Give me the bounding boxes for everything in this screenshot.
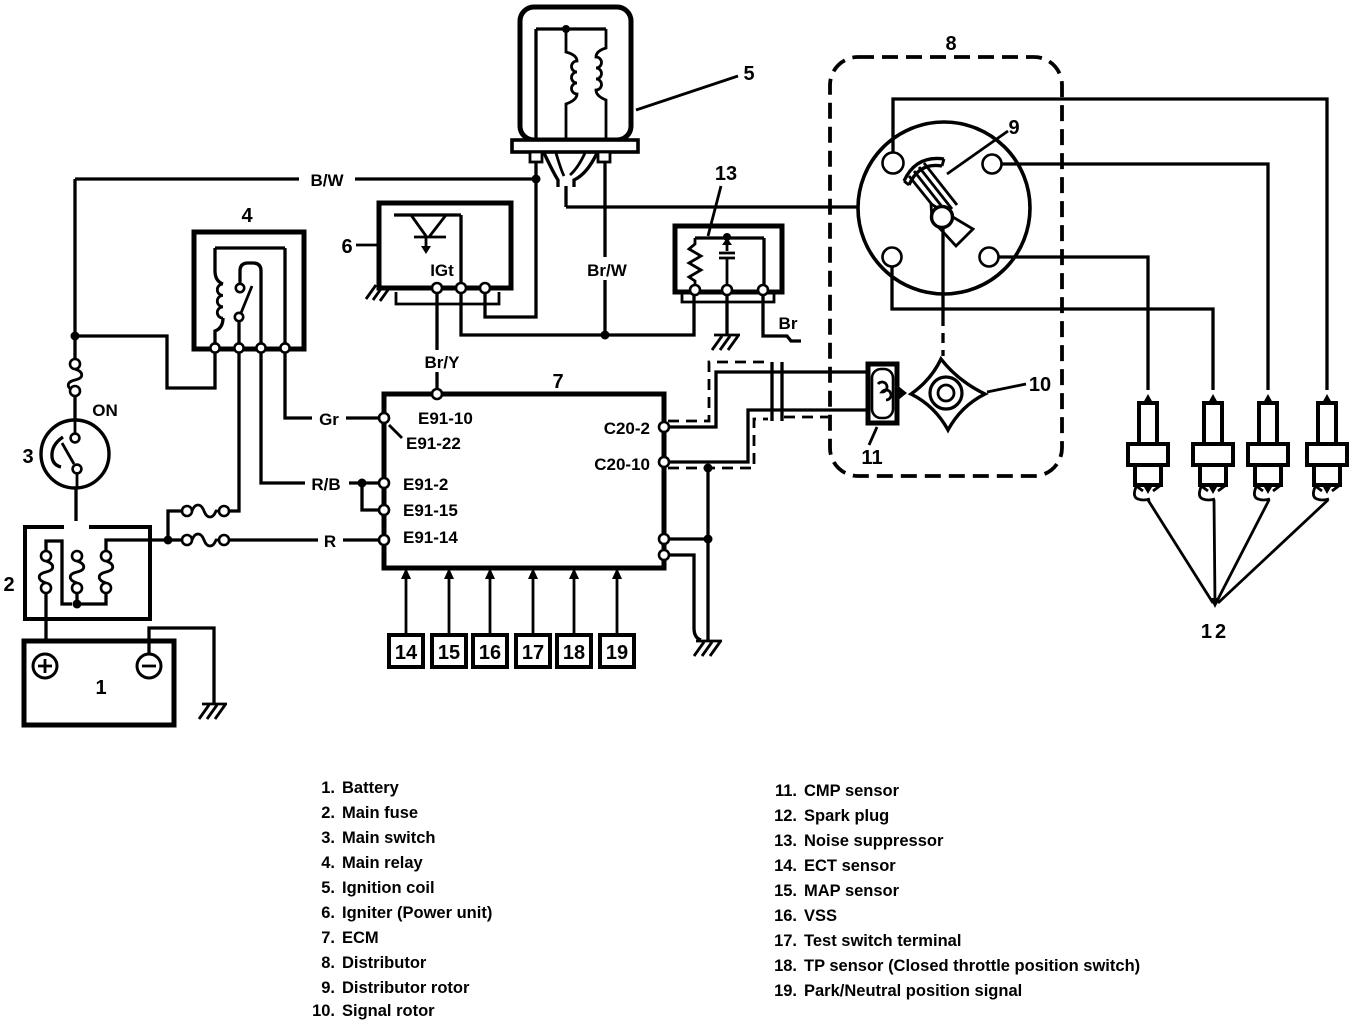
svg-text:Spark plug: Spark plug xyxy=(804,807,889,825)
wire rotor UR to spark plug 3 xyxy=(1001,164,1268,390)
svg-text:11: 11 xyxy=(861,447,882,469)
svg-text:6.: 6. xyxy=(321,904,335,922)
svg-text:16: 16 xyxy=(479,642,501,664)
label 10 xyxy=(987,374,1051,396)
pin label C20-10 xyxy=(594,455,650,474)
ECM bottom arrow 15 xyxy=(444,568,454,635)
svg-text:5.: 5. xyxy=(321,879,335,897)
pin label C20-2 xyxy=(604,419,650,438)
svg-text:17: 17 xyxy=(522,642,544,664)
svg-text:8: 8 xyxy=(945,33,956,55)
leader spark plug 4 xyxy=(1218,500,1328,603)
label R/B xyxy=(305,472,349,494)
svg-text:Main fuse: Main fuse xyxy=(342,804,418,822)
ground igniter xyxy=(366,285,390,301)
label 9 xyxy=(947,117,1020,174)
node Br/W junction xyxy=(601,331,610,340)
label 5 xyxy=(636,63,755,110)
svg-text:Main relay: Main relay xyxy=(342,854,424,872)
svg-text:13: 13 xyxy=(715,163,737,185)
svg-text:14: 14 xyxy=(395,642,418,664)
label Br/Y xyxy=(418,350,466,372)
ECM bottom arrow 19 xyxy=(612,568,622,635)
svg-text:1.: 1. xyxy=(321,779,335,797)
harness sheath dashed after connector xyxy=(784,416,828,419)
svg-text:1: 1 xyxy=(95,677,106,699)
wire coil left terminal down to igniter T3 xyxy=(485,162,536,317)
harness connector xyxy=(772,362,782,421)
svg-text:Br: Br xyxy=(779,314,798,333)
ECM bottom arrow 18 xyxy=(569,568,579,635)
coil terminal right xyxy=(598,152,610,162)
wire battery minus to ground xyxy=(149,628,214,703)
CMP sensor 11 xyxy=(868,364,907,423)
label B/W xyxy=(299,167,355,190)
harness sheath dashed lower xyxy=(668,419,768,468)
node fuse bottom bus xyxy=(73,600,82,609)
wire linkB bottom to bus xyxy=(75,593,78,604)
coil terminal left xyxy=(530,152,542,162)
node shield ground tap xyxy=(704,464,713,473)
wire R to ECM xyxy=(229,538,380,541)
label 8 xyxy=(945,33,956,55)
svg-text:8.: 8. xyxy=(321,954,335,972)
node junction switch/relay feed xyxy=(71,332,80,341)
wire relay pin1 feed xyxy=(75,336,215,388)
wire rotor shaft dashed xyxy=(941,295,944,356)
label Br/W xyxy=(580,257,635,280)
pin label E91-14 xyxy=(403,528,458,547)
svg-text:E91-10: E91-10 xyxy=(418,409,473,428)
svg-text:Park/Neutral position signal: Park/Neutral position signal xyxy=(804,982,1022,1000)
svg-text:TP sensor (Closed throttle pos: TP sensor (Closed throttle position swit… xyxy=(804,957,1140,975)
wire igniter T2 to suppressor xyxy=(461,293,694,335)
wire shield ground xyxy=(706,468,709,539)
ignition coil 5 xyxy=(520,7,631,140)
distributor rotor 9 xyxy=(858,122,1030,295)
svg-text:E91-14: E91-14 xyxy=(403,528,458,547)
svg-text:19: 19 xyxy=(606,642,628,664)
VSS box 16 xyxy=(473,635,507,667)
wire B/W main horizontal xyxy=(75,177,536,180)
svg-text:Battery: Battery xyxy=(342,779,400,797)
wire fuse internal linkA-top to bottom bus xyxy=(46,541,72,604)
wire high tension coil to rotor xyxy=(566,205,932,208)
ECM bottom arrow 16 xyxy=(485,568,495,635)
label 12 xyxy=(1201,598,1229,643)
ground suppressor xyxy=(712,295,740,350)
wire rotor LL to spark plug 2 xyxy=(892,266,1213,390)
igniter 6 xyxy=(379,203,511,304)
wire ECM pin to ground bus xyxy=(669,537,708,540)
label 6 xyxy=(341,236,377,258)
wire rotor UL to spark plug 4 xyxy=(893,99,1327,390)
node B/W coil junction xyxy=(532,175,541,184)
svg-text:13.: 13. xyxy=(774,832,797,850)
svg-text:Br/W: Br/W xyxy=(587,261,628,280)
svg-text:2.: 2. xyxy=(321,804,335,822)
wire Br/W coil right terminal down xyxy=(603,162,606,335)
label 1 xyxy=(95,677,106,699)
svg-text:11.: 11. xyxy=(775,782,797,800)
svg-text:4: 4 xyxy=(241,205,253,227)
wire R/B relay pin3 to ECM xyxy=(261,352,380,483)
label ON xyxy=(92,401,118,420)
pin label E91-15 xyxy=(403,501,458,520)
svg-text:6: 6 xyxy=(341,236,352,258)
test switch box 17 xyxy=(516,635,550,667)
wire Br/Y igniter T1 to ECM xyxy=(435,293,438,390)
svg-text:R: R xyxy=(324,532,336,551)
svg-text:3.: 3. xyxy=(321,829,335,847)
wire linkC top out to junction xyxy=(106,540,168,551)
ECT sensor box 14 xyxy=(389,635,423,667)
svg-text:Gr: Gr xyxy=(319,410,339,429)
wire junction up to relay fuse xyxy=(168,511,182,540)
wire switch to main fuse xyxy=(74,488,77,551)
svg-text:15: 15 xyxy=(438,642,460,664)
wire ground bus down xyxy=(706,539,709,640)
distributor 8 dashed box xyxy=(830,57,1062,476)
label Gr xyxy=(312,407,346,429)
svg-text:ECM: ECM xyxy=(342,929,379,947)
svg-text:3: 3 xyxy=(22,446,33,468)
svg-text:10: 10 xyxy=(1029,374,1051,396)
wire Gr relay pin4 to ECM xyxy=(285,352,380,418)
svg-text:9: 9 xyxy=(1008,117,1019,139)
signal rotor 10 xyxy=(911,359,985,430)
fusible link B xyxy=(70,551,84,593)
svg-text:18: 18 xyxy=(563,642,585,664)
label 3 xyxy=(22,446,33,468)
svg-text:17.: 17. xyxy=(774,932,797,950)
svg-text:7.: 7. xyxy=(321,929,335,947)
leader spark plug 2 xyxy=(1214,500,1215,603)
leader spark plug 3 xyxy=(1216,500,1269,603)
ground battery xyxy=(199,704,227,719)
wire ECM pin2 to ground xyxy=(669,555,701,640)
pin label E91-2 xyxy=(403,475,448,494)
fusible link A xyxy=(39,551,53,593)
svg-text:Ignition coil: Ignition coil xyxy=(342,879,435,897)
svg-text:B/W: B/W xyxy=(310,171,344,190)
ECM 7 xyxy=(379,389,669,568)
svg-text:15.: 15. xyxy=(774,882,797,900)
wire C20-2 to CMP sensor xyxy=(669,372,866,427)
wire main switch feed vertical xyxy=(73,179,76,359)
svg-text:Igniter (Power unit): Igniter (Power unit) xyxy=(342,904,492,922)
wire Br suppressor right xyxy=(763,295,801,341)
harness sheath dashed upper xyxy=(668,362,768,421)
wire bus to linkC bottom xyxy=(77,593,106,604)
svg-text:Test switch terminal: Test switch terminal xyxy=(804,932,961,950)
park/neutral box 19 xyxy=(600,635,634,667)
svg-text:12.: 12. xyxy=(774,807,797,825)
ECM bottom arrow 17 xyxy=(528,568,538,635)
svg-text:Distributor: Distributor xyxy=(342,954,427,972)
spark plug 3 xyxy=(1248,394,1288,500)
svg-text:R/B: R/B xyxy=(311,475,340,494)
main relay 4 xyxy=(194,232,304,353)
spark plug 4 xyxy=(1307,394,1347,500)
svg-text:VSS: VSS xyxy=(804,907,837,925)
svg-text:MAP sensor: MAP sensor xyxy=(804,882,900,900)
label 11 xyxy=(861,427,882,469)
battery 1 xyxy=(24,641,174,725)
svg-text:IGt: IGt xyxy=(430,261,454,280)
svg-text:12: 12 xyxy=(1201,621,1229,643)
ignition coil flange xyxy=(512,140,638,152)
node fuse output junction xyxy=(164,536,173,545)
svg-text:C20-2: C20-2 xyxy=(604,419,650,438)
node ground bus xyxy=(704,535,713,544)
main switch 3 xyxy=(41,420,109,488)
pin label E91-10 xyxy=(418,409,473,428)
svg-text:16.: 16. xyxy=(774,907,797,925)
svg-text:Br/Y: Br/Y xyxy=(425,353,461,372)
label IGt xyxy=(430,261,454,280)
svg-text:CMP sensor: CMP sensor xyxy=(804,782,900,800)
connector on switch wire xyxy=(68,359,82,420)
label 7 xyxy=(552,371,563,393)
main fuse 2 box xyxy=(25,521,150,619)
svg-text:E91-22: E91-22 xyxy=(406,434,461,453)
label 2 xyxy=(3,574,14,596)
svg-text:Signal rotor: Signal rotor xyxy=(342,1002,435,1020)
svg-text:7: 7 xyxy=(552,371,563,393)
fusible link C xyxy=(99,551,113,593)
label 4 xyxy=(241,205,253,227)
svg-text:ON: ON xyxy=(92,401,118,420)
fuse to relay pin2 xyxy=(182,351,239,517)
leader spark plug 1 xyxy=(1148,500,1213,603)
wire linkA bottom to battery plus xyxy=(44,593,47,654)
label 13 xyxy=(708,163,737,236)
svg-text:Distributor rotor: Distributor rotor xyxy=(342,979,470,997)
label Br xyxy=(779,314,798,333)
svg-text:2: 2 xyxy=(3,574,14,596)
svg-text:ECT sensor: ECT sensor xyxy=(804,857,896,875)
wire rotor LR to spark plug 1 xyxy=(998,257,1148,390)
svg-text:4.: 4. xyxy=(321,854,335,872)
svg-text:19.: 19. xyxy=(774,982,797,1000)
noise suppressor 13 xyxy=(675,226,782,302)
spark plug 1 xyxy=(1128,394,1168,500)
ground ECM right xyxy=(694,641,722,656)
ECM bottom arrow 14 xyxy=(401,568,411,635)
svg-text:10.: 10. xyxy=(312,1002,335,1020)
svg-text:E91-15: E91-15 xyxy=(403,501,458,520)
svg-text:Noise suppressor: Noise suppressor xyxy=(804,832,944,850)
svg-text:9.: 9. xyxy=(321,979,335,997)
svg-text:E91-2: E91-2 xyxy=(403,475,448,494)
pin label E91-22 xyxy=(389,425,461,453)
svg-text:Main switch: Main switch xyxy=(342,829,436,847)
wire R/B branch to E91-15 xyxy=(362,483,380,510)
svg-text:18.: 18. xyxy=(774,957,797,975)
node R/B branch xyxy=(358,479,367,488)
fuse on R wire xyxy=(168,534,229,546)
svg-text:14.: 14. xyxy=(774,857,797,875)
label R xyxy=(318,529,343,551)
svg-text:C20-10: C20-10 xyxy=(594,455,650,474)
legend text xyxy=(312,779,1140,1020)
MAP sensor box 15 xyxy=(432,635,466,667)
wire C20-10 to CMP sensor xyxy=(669,410,866,462)
TP sensor box 18 xyxy=(557,635,591,667)
coil tower bell xyxy=(544,153,597,207)
svg-text:5: 5 xyxy=(743,63,754,85)
spark plug 2 xyxy=(1193,394,1233,500)
